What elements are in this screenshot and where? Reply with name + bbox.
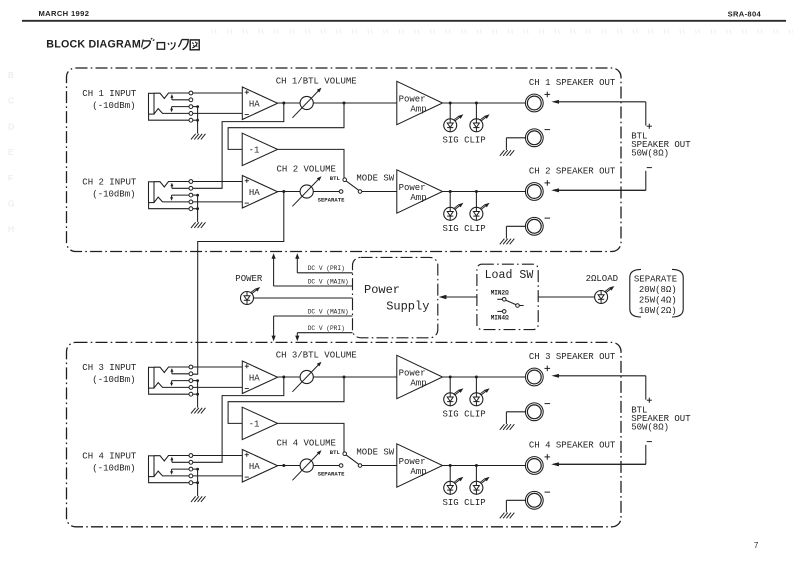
label BTL (MODE SW position) — [330, 449, 341, 456]
wire Power Amp 1 output to speaker jack — [443, 102, 526, 104]
wire MODE SW to Power Amp 4 — [362, 465, 397, 467]
potentiometer CH 1 volume — [292, 88, 321, 118]
label DC V(PRI) lower — [308, 325, 345, 332]
svg-text:H: H — [8, 224, 14, 234]
svg-text:CH 2 SPEAKER OUT: CH 2 SPEAKER OUT — [529, 167, 616, 177]
op-amp Power Amp (CH 4) — [397, 444, 443, 487]
svg-text:CH 4 VOLUME: CH 4 VOLUME — [277, 439, 336, 449]
amplifier section box CH1/CH2 (dash-dot border) — [67, 68, 622, 252]
wire CH 2 jack tip to HA + input — [193, 181, 243, 183]
speaker terminal CH 3 - (binding post) — [525, 403, 550, 421]
node HA4 output junction — [282, 464, 285, 467]
wire to SIG LED (CH 1) — [449, 103, 451, 119]
svg-text:MODE SW: MODE SW — [356, 448, 394, 458]
node LED tap 1 (CH 4) — [449, 464, 452, 467]
node LED tap 1 (CH 3) — [449, 376, 452, 379]
svg-text:10W(2Ω): 10W(2Ω) — [639, 306, 677, 316]
wire CH3 volume to Power Amp — [313, 376, 397, 378]
wire DC V(MAIN) to lower amp box — [272, 316, 353, 341]
title katakana (block diagram in Japanese) — [143, 38, 199, 50]
LED SIG (CH 3) — [444, 388, 464, 406]
switch Load SW contacts — [497, 298, 523, 314]
label 2ΩLOAD — [586, 274, 618, 284]
wire HA1 output to CH2 jack normal contact — [193, 103, 284, 188]
label SIG CLIP (CH 1) — [443, 136, 486, 146]
label POWER — [235, 274, 263, 284]
LED SIG (CH 1) — [444, 114, 464, 132]
svg-text:CH 3 SPEAKER OUT: CH 3 SPEAKER OUT — [529, 352, 616, 362]
svg-text:50W(8Ω): 50W(8Ω) — [631, 422, 669, 432]
op-amp -1 inverter (CH3 to CH4 BTL) — [242, 407, 277, 439]
label Load SW — [485, 269, 534, 282]
label MIN4Ω — [491, 315, 509, 322]
svg-text:DC V (MAIN): DC V (MAIN) — [308, 308, 349, 315]
label SEPARATE (MODE SW position) — [318, 471, 345, 478]
label CH 3 SPEAKER OUT — [529, 352, 616, 362]
wire Power Amp 4 output to speaker jack — [443, 465, 526, 467]
op-amp HA (CH 1 head amp) — [242, 87, 277, 120]
svg-text:CH 1/BTL VOLUME: CH 1/BTL VOLUME — [276, 77, 357, 87]
svg-text:Power: Power — [399, 95, 426, 105]
svg-text:Amp: Amp — [410, 105, 426, 115]
wire volume CH1 node to -1 inverter input — [228, 103, 344, 149]
wire to SIG LED (CH 3) — [449, 377, 451, 393]
svg-text:-1: -1 — [249, 420, 260, 430]
power supply box U-PS — [353, 257, 438, 337]
svg-text:SRA-804: SRA-804 — [728, 10, 762, 19]
label CH 2 VOLUME — [277, 165, 336, 175]
wire HA4 output to volume pot — [278, 465, 301, 467]
svg-text:SIG CLIP: SIG CLIP — [443, 410, 486, 420]
svg-text:-1: -1 — [249, 146, 260, 156]
wire CH 1 jack ring to HA - input — [193, 112, 243, 114]
LED SIG (CH 2) — [444, 203, 464, 221]
wire to SIG LED (CH 2) — [449, 192, 451, 208]
svg-text:Power: Power — [399, 457, 426, 467]
svg-text:BTL: BTL — [330, 449, 341, 456]
LED CLIP (CH 4) — [470, 477, 490, 495]
wire -1 inverter output to MODE SW BTL contact — [278, 423, 344, 452]
svg-text:Power: Power — [399, 369, 426, 379]
label SIG CLIP (CH 2) — [443, 224, 486, 234]
svg-text:CH 4 INPUT: CH 4 INPUT — [82, 451, 137, 461]
node LED tap 2 (CH 1) — [475, 102, 478, 105]
wire POWER LED to Power Supply — [254, 297, 353, 299]
speaker terminal CH 1 + (binding post) — [525, 92, 550, 112]
op-amp HA (CH 2 head amp) — [242, 176, 277, 209]
node HA1 output junction — [282, 102, 285, 105]
label CH 1 SPEAKER OUT — [529, 78, 616, 88]
label MODE SW — [356, 174, 394, 184]
amplifier section box CH3/CH4 (dash-dot border) — [67, 342, 622, 526]
label CH 2 SPEAKER OUT — [529, 167, 616, 177]
label CH 1 INPUT (-10dBm) — [82, 89, 137, 111]
svg-text:SIG CLIP: SIG CLIP — [443, 224, 486, 234]
node volume CH1 output junction — [343, 102, 346, 105]
faint scan bleed-through marks — [8, 30, 793, 235]
svg-text:G: G — [8, 199, 15, 209]
label DC V(MAIN) upper — [308, 278, 349, 285]
label SIG CLIP (CH 3) — [443, 410, 486, 420]
ground (CH 3 speaker -) — [500, 412, 526, 430]
wire CH 4 jack ring to HA - input — [193, 475, 243, 477]
speaker terminal CH 1 - (binding post) — [525, 129, 550, 147]
LED CLIP (CH 3) — [470, 388, 490, 406]
wire volume CH3 node to -1 inverter input — [228, 377, 344, 423]
label MIN2Ω — [491, 290, 509, 297]
svg-text:SIG CLIP: SIG CLIP — [443, 498, 486, 508]
wire Power Amp 3 output to speaker jack — [443, 376, 526, 378]
label CH 1/BTL VOLUME — [276, 77, 357, 87]
label CH 4 SPEAKER OUT — [529, 441, 616, 451]
svg-text:MARCH 1992: MARCH 1992 — [39, 9, 90, 18]
wire Power Amp 2 output to speaker jack — [443, 191, 526, 193]
input jack J2 (CH 2) — [149, 180, 193, 211]
potentiometer CH 4 volume — [292, 450, 321, 480]
wire to SIG LED (CH 4) — [449, 466, 451, 482]
wire HA2 output to CH3 jack normal contact (crosses between boxes) — [193, 192, 284, 375]
svg-text:CH 2 VOLUME: CH 2 VOLUME — [277, 165, 336, 175]
input jack J4 (CH 4) — [149, 454, 193, 485]
op-amp -1 inverter (CH1 to CH2 BTL) — [242, 133, 277, 165]
wire HA2 output to volume pot — [278, 191, 301, 193]
Load SW box S1 — [477, 264, 538, 329]
wire BTL bridge arrow into CH 3 speaker + — [551, 374, 645, 378]
svg-text:HA: HA — [249, 188, 260, 198]
op-amp HA (CH 4 head amp) — [242, 450, 277, 483]
svg-text:CH 3 INPUT: CH 3 INPUT — [82, 363, 137, 373]
label CH 3/BTL VOLUME — [276, 351, 357, 361]
label CH 2 INPUT (-10dBm) — [82, 177, 137, 199]
node LED tap 1 (CH 1) — [449, 102, 452, 105]
svg-text:2ΩLOAD: 2ΩLOAD — [586, 274, 618, 284]
svg-text:SEPARATE: SEPARATE — [318, 197, 345, 204]
note SEPARATE power ratings — [630, 269, 683, 317]
svg-text:SEPARATE: SEPARATE — [634, 274, 677, 284]
node LED tap 2 (CH 2) — [475, 190, 478, 193]
wire DC V(PRI) to upper amp box — [295, 253, 352, 273]
wire BTL bridge arrow into CH 4 speaker + — [551, 462, 645, 466]
ground (CH 4 speaker -) — [500, 500, 526, 518]
wire CH2 volume to MODE SW SEPARATE contact — [313, 191, 339, 193]
svg-text:F: F — [8, 173, 13, 183]
ground (CH 4 input jack sleeve) — [191, 468, 206, 502]
svg-text:BLOCK DIAGRAM/: BLOCK DIAGRAM/ — [46, 39, 144, 51]
node HA3 output junction — [282, 376, 285, 379]
wire CH 2 jack ring to HA - input — [193, 201, 243, 203]
wire to CLIP LED (CH 1) — [475, 103, 477, 119]
svg-text:CH 1 INPUT: CH 1 INPUT — [82, 89, 137, 99]
svg-text:Supply: Supply — [386, 299, 429, 313]
speaker terminal CH 2 - (binding post) — [525, 217, 550, 235]
label SIG CLIP (CH 4) — [443, 498, 486, 508]
ground (CH 1 speaker -) — [500, 138, 526, 156]
speaker terminal CH 2 + (binding post) — [525, 180, 550, 200]
svg-text:MIN2Ω: MIN2Ω — [491, 290, 509, 297]
op-amp HA (CH 3 head amp) — [242, 361, 277, 394]
wire HA3 output to volume pot — [278, 376, 301, 378]
svg-text:Load SW: Load SW — [485, 269, 534, 282]
svg-text:CH 2 INPUT: CH 2 INPUT — [82, 177, 137, 187]
BTL SPEAKER OUT 50W(8Ω) bridge connection (CH1/CH2) — [551, 102, 691, 192]
svg-text:Amp: Amp — [410, 467, 426, 477]
wire to CLIP LED (CH 4) — [475, 466, 477, 482]
svg-text:SEPARATE: SEPARATE — [318, 471, 345, 478]
LED CLIP (CH 2) — [470, 203, 490, 221]
wire CH 3 jack tip to HA + input — [193, 366, 243, 368]
svg-text:CH 4 SPEAKER OUT: CH 4 SPEAKER OUT — [529, 441, 616, 451]
wire DC V(MAIN) to upper amp box — [272, 253, 353, 286]
label SEPARATE (MODE SW position) — [318, 197, 345, 204]
svg-text:CH 3/BTL VOLUME: CH 3/BTL VOLUME — [276, 351, 357, 361]
svg-text:SIG CLIP: SIG CLIP — [443, 136, 486, 146]
wire CH 3 jack ring to HA - input — [193, 386, 243, 388]
wire CH1 volume to Power Amp — [313, 102, 397, 104]
svg-text:HA: HA — [249, 373, 260, 383]
op-amp Power Amp (CH 1) — [397, 81, 443, 124]
wire CH 4 jack tip to HA + input — [193, 455, 243, 457]
svg-text:(-10dBm): (-10dBm) — [92, 375, 135, 385]
switch MODE SW (CH2) — [339, 178, 362, 193]
svg-text:DC V (PRI): DC V (PRI) — [308, 325, 345, 332]
svg-text:Power: Power — [399, 183, 426, 193]
label DC V(PRI) upper — [308, 265, 345, 272]
node HA2 output junction — [282, 190, 285, 193]
wire MODE SW to Power Amp 2 — [362, 191, 397, 193]
wire CH4 volume to MODE SW SEPARATE contact — [313, 465, 339, 467]
wire HA1 output to volume pot — [278, 102, 301, 104]
svg-text:E: E — [8, 147, 14, 157]
wire CH 1 jack tip to HA + input — [193, 92, 243, 94]
wire to CLIP LED (CH 2) — [475, 192, 477, 208]
svg-text:HA: HA — [249, 99, 260, 109]
op-amp Power Amp (CH 2) — [397, 170, 443, 213]
svg-text:7: 7 — [754, 541, 758, 550]
svg-text:20W(8Ω): 20W(8Ω) — [639, 285, 677, 295]
op-amp Power Amp (CH 3) — [397, 355, 443, 398]
svg-text:Power: Power — [364, 283, 400, 297]
label Power Supply — [364, 283, 429, 313]
node LED tap 1 (CH 2) — [449, 190, 452, 193]
label CH 4 VOLUME — [277, 439, 336, 449]
input jack J1 (CH 1) — [149, 91, 193, 122]
label DC V(MAIN) lower — [308, 308, 349, 315]
label MODE SW — [356, 448, 394, 458]
svg-text:MODE SW: MODE SW — [356, 174, 394, 184]
svg-text:(-10dBm): (-10dBm) — [92, 190, 135, 200]
switch MODE SW (CH4) — [339, 452, 362, 467]
svg-text:DC V (PRI): DC V (PRI) — [308, 265, 345, 272]
label BTL (MODE SW position) — [330, 175, 341, 182]
label CH 3 INPUT (-10dBm) — [82, 363, 137, 385]
ground (CH 1 input jack sleeve) — [191, 105, 206, 139]
wire to CLIP LED (CH 3) — [475, 377, 477, 393]
LED 2Ω LOAD indicator — [595, 286, 615, 304]
speaker terminal CH 4 - (binding post) — [525, 491, 550, 509]
LED SIG (CH 4) — [444, 477, 464, 495]
label CH 4 INPUT (-10dBm) — [82, 451, 137, 473]
svg-text:C: C — [8, 96, 14, 106]
header rule — [22, 20, 786, 22]
node LED tap 2 (CH 4) — [475, 464, 478, 467]
wire HA3 output to CH4 jack normal contact — [193, 377, 284, 462]
BTL SPEAKER OUT 50W(8Ω) bridge connection (CH3/CH4) — [551, 376, 691, 466]
node LED tap 2 (CH 3) — [475, 376, 478, 379]
svg-text:B: B — [8, 70, 14, 80]
svg-text:DC V (MAIN): DC V (MAIN) — [308, 278, 349, 285]
ground (CH 3 input jack sleeve) — [191, 379, 206, 413]
svg-text:(-10dBm): (-10dBm) — [92, 101, 135, 111]
wire BTL bridge arrow into CH 1 speaker + — [551, 100, 645, 104]
svg-text:BTL: BTL — [330, 175, 341, 182]
svg-text:D: D — [8, 121, 14, 131]
svg-text:CH 1 SPEAKER OUT: CH 1 SPEAKER OUT — [529, 78, 616, 88]
LED POWER indicator — [241, 287, 261, 305]
wire Load SW to Power Supply (arrow) — [439, 295, 477, 300]
ground (CH 2 input jack sleeve) — [191, 194, 206, 228]
svg-text:HA: HA — [249, 462, 260, 472]
speaker terminal CH 3 + (binding post) — [525, 366, 550, 386]
input jack J3 (CH 3) — [149, 365, 193, 396]
speaker terminal CH 4 + (binding post) — [525, 454, 550, 474]
svg-text:POWER: POWER — [235, 274, 263, 284]
potentiometer CH 2 volume — [292, 176, 321, 206]
svg-text:MIN4Ω: MIN4Ω — [491, 315, 509, 322]
svg-text:50W(8Ω): 50W(8Ω) — [631, 148, 669, 158]
svg-text:Amp: Amp — [410, 193, 426, 203]
svg-text:Amp: Amp — [410, 379, 426, 389]
LED CLIP (CH 1) — [470, 114, 490, 132]
wire DC V(PRI) to lower amp box — [295, 333, 352, 342]
wire BTL bridge arrow into CH 2 speaker + — [551, 188, 645, 192]
wire Load SW to 2Ω LOAD LED — [538, 296, 594, 298]
svg-text:(-10dBm): (-10dBm) — [92, 464, 135, 474]
potentiometer CH 3 volume — [292, 362, 321, 392]
ground (CH 2 speaker -) — [500, 226, 526, 244]
node volume CH3 output junction — [343, 376, 346, 379]
wire -1 inverter output to MODE SW BTL contact — [278, 149, 344, 178]
svg-text:25W(4Ω): 25W(4Ω) — [639, 296, 677, 306]
